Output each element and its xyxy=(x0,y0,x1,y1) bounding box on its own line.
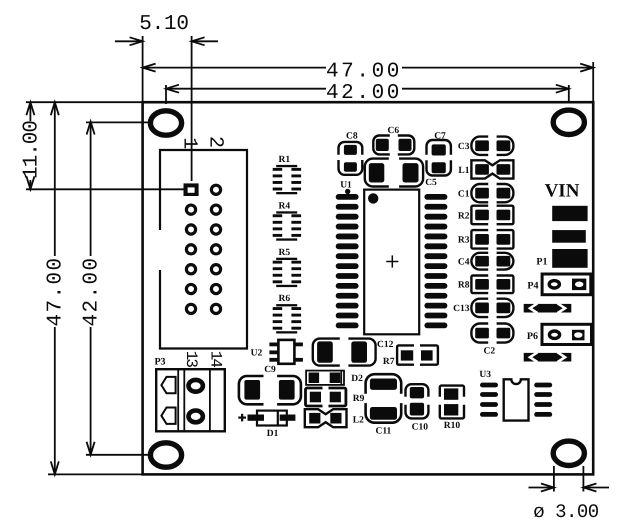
IC U2 body xyxy=(278,340,294,364)
svg-text:U2: U2 xyxy=(251,349,263,359)
polarity arrow symbol upper xyxy=(524,304,572,313)
board outline xyxy=(143,102,594,474)
U3 left pins xyxy=(480,383,498,388)
svg-text:R4: R4 xyxy=(278,201,290,211)
mounting hole top-left xyxy=(150,111,181,135)
connector J1 body outline (left edge has gap) xyxy=(160,150,247,349)
IC U1 body xyxy=(364,190,419,335)
svg-text:13: 13 xyxy=(182,351,200,368)
dimension 11.00 vertical line xyxy=(29,102,31,121)
dimension extension line pin1 column xyxy=(191,36,193,181)
svg-text:R2: R2 xyxy=(458,211,470,221)
dimension 42.00 horizontal line xyxy=(166,88,326,90)
U1 pin-1 dot inside body xyxy=(368,193,378,203)
extension line pin1 row to left xyxy=(26,188,184,190)
polarity arrow symbol lower xyxy=(524,353,572,362)
IC U3 body with notch xyxy=(504,379,529,420)
dimension extension line board-left top xyxy=(142,36,144,101)
U1 right pins xyxy=(424,194,447,200)
svg-text:L1: L1 xyxy=(458,166,469,176)
svg-text:U3: U3 xyxy=(479,370,491,380)
svg-text:P1: P1 xyxy=(536,257,547,268)
diode D1 plus sign xyxy=(238,417,246,419)
svg-text:5.10: 5.10 xyxy=(139,13,189,36)
svg-text:D1: D1 xyxy=(267,429,279,439)
dimension dia 3.00 arrows xyxy=(541,484,554,492)
P3 wire-entry arrow bottom xyxy=(161,408,175,424)
svg-text:P3: P3 xyxy=(154,357,165,368)
svg-text:14: 14 xyxy=(206,351,224,368)
svg-text:42.00: 42.00 xyxy=(80,256,103,326)
svg-text:VIN: VIN xyxy=(545,181,580,202)
svg-text:ø 3.00: ø 3.00 xyxy=(533,501,599,523)
mounting hole bottom-left xyxy=(150,443,181,467)
svg-text:D2: D2 xyxy=(351,374,363,384)
connector P4 outline xyxy=(542,274,591,295)
P3 ring pad top xyxy=(189,380,203,392)
svg-text:R7: R7 xyxy=(383,357,395,367)
svg-text:C10: C10 xyxy=(412,422,429,432)
svg-text:U1: U1 xyxy=(340,180,352,190)
dimension 47.00 vertical line xyxy=(54,102,56,256)
svg-text:C8: C8 xyxy=(346,132,358,142)
connector P1 pad 1 xyxy=(552,206,587,221)
connector round pads xyxy=(211,185,220,194)
svg-text:R3: R3 xyxy=(458,236,470,246)
svg-text:R1: R1 xyxy=(278,155,290,165)
svg-text:2: 2 xyxy=(203,136,226,148)
extension line board-top to left xyxy=(26,101,143,103)
connector P1 pad 3 xyxy=(552,249,587,268)
extension lines bottom-right hole diameter xyxy=(553,466,555,492)
svg-text:R5: R5 xyxy=(278,248,290,258)
P3 ring pad bottom xyxy=(189,411,203,423)
connector pin 1 square pad xyxy=(184,183,199,196)
svg-text:R8: R8 xyxy=(458,281,470,291)
U1 center cross xyxy=(386,261,398,263)
connector P3 body xyxy=(156,369,225,431)
svg-text:C4: C4 xyxy=(458,258,470,268)
dimension 42.00 vertical line xyxy=(90,122,92,257)
P3 wire-entry arrow top xyxy=(161,377,175,393)
svg-text:C11: C11 xyxy=(375,427,391,437)
extension line top-left hole xyxy=(165,85,167,104)
U2 right pins xyxy=(294,343,303,347)
connector P1 pad 2 xyxy=(552,230,586,243)
svg-text:C3: C3 xyxy=(458,142,470,152)
svg-text:C12: C12 xyxy=(377,340,394,350)
dimension 5.10 left arrow xyxy=(130,37,143,45)
svg-text:R10: R10 xyxy=(444,421,461,431)
svg-text:P6: P6 xyxy=(527,331,538,342)
svg-text:C5: C5 xyxy=(425,178,437,188)
svg-text:11.00: 11.00 xyxy=(20,121,43,179)
svg-text:R9: R9 xyxy=(353,394,365,404)
diode D1 xyxy=(248,415,265,421)
svg-text:47.00: 47.00 xyxy=(326,60,402,83)
mounting hole top-right xyxy=(553,110,584,134)
P3 divider lines xyxy=(177,369,179,431)
svg-text:47.00: 47.00 xyxy=(45,256,68,326)
mounting hole bottom-right xyxy=(553,441,584,465)
extension line board-right top xyxy=(592,62,594,101)
svg-text:C13: C13 xyxy=(453,304,470,314)
P6 round pad xyxy=(549,331,559,338)
svg-text:C9: C9 xyxy=(264,365,276,375)
svg-text:L2: L2 xyxy=(353,416,364,426)
U2 left pins xyxy=(269,343,278,347)
dimension 5.10 right arrow xyxy=(192,37,205,45)
U1 left pins xyxy=(336,194,359,200)
extension line top hole center to left xyxy=(86,121,149,123)
extension line board-bottom to left xyxy=(48,473,143,475)
svg-text:C1: C1 xyxy=(458,189,470,199)
P6 square pad xyxy=(572,330,585,341)
P4 round pad xyxy=(549,281,559,288)
connector P6 outline xyxy=(542,324,592,344)
P4 square pad xyxy=(572,279,586,291)
dimension 47.00 horizontal line xyxy=(143,67,326,69)
svg-text:1: 1 xyxy=(178,137,201,149)
svg-text:P4: P4 xyxy=(527,281,538,292)
U3 right pins xyxy=(534,383,552,388)
svg-text:C2: C2 xyxy=(483,346,495,356)
U1 pin-1 dot outside xyxy=(345,189,350,194)
extension line bottom hole center to left xyxy=(86,454,148,456)
svg-text:R6: R6 xyxy=(278,294,290,304)
extension line top-right hole xyxy=(568,85,570,103)
